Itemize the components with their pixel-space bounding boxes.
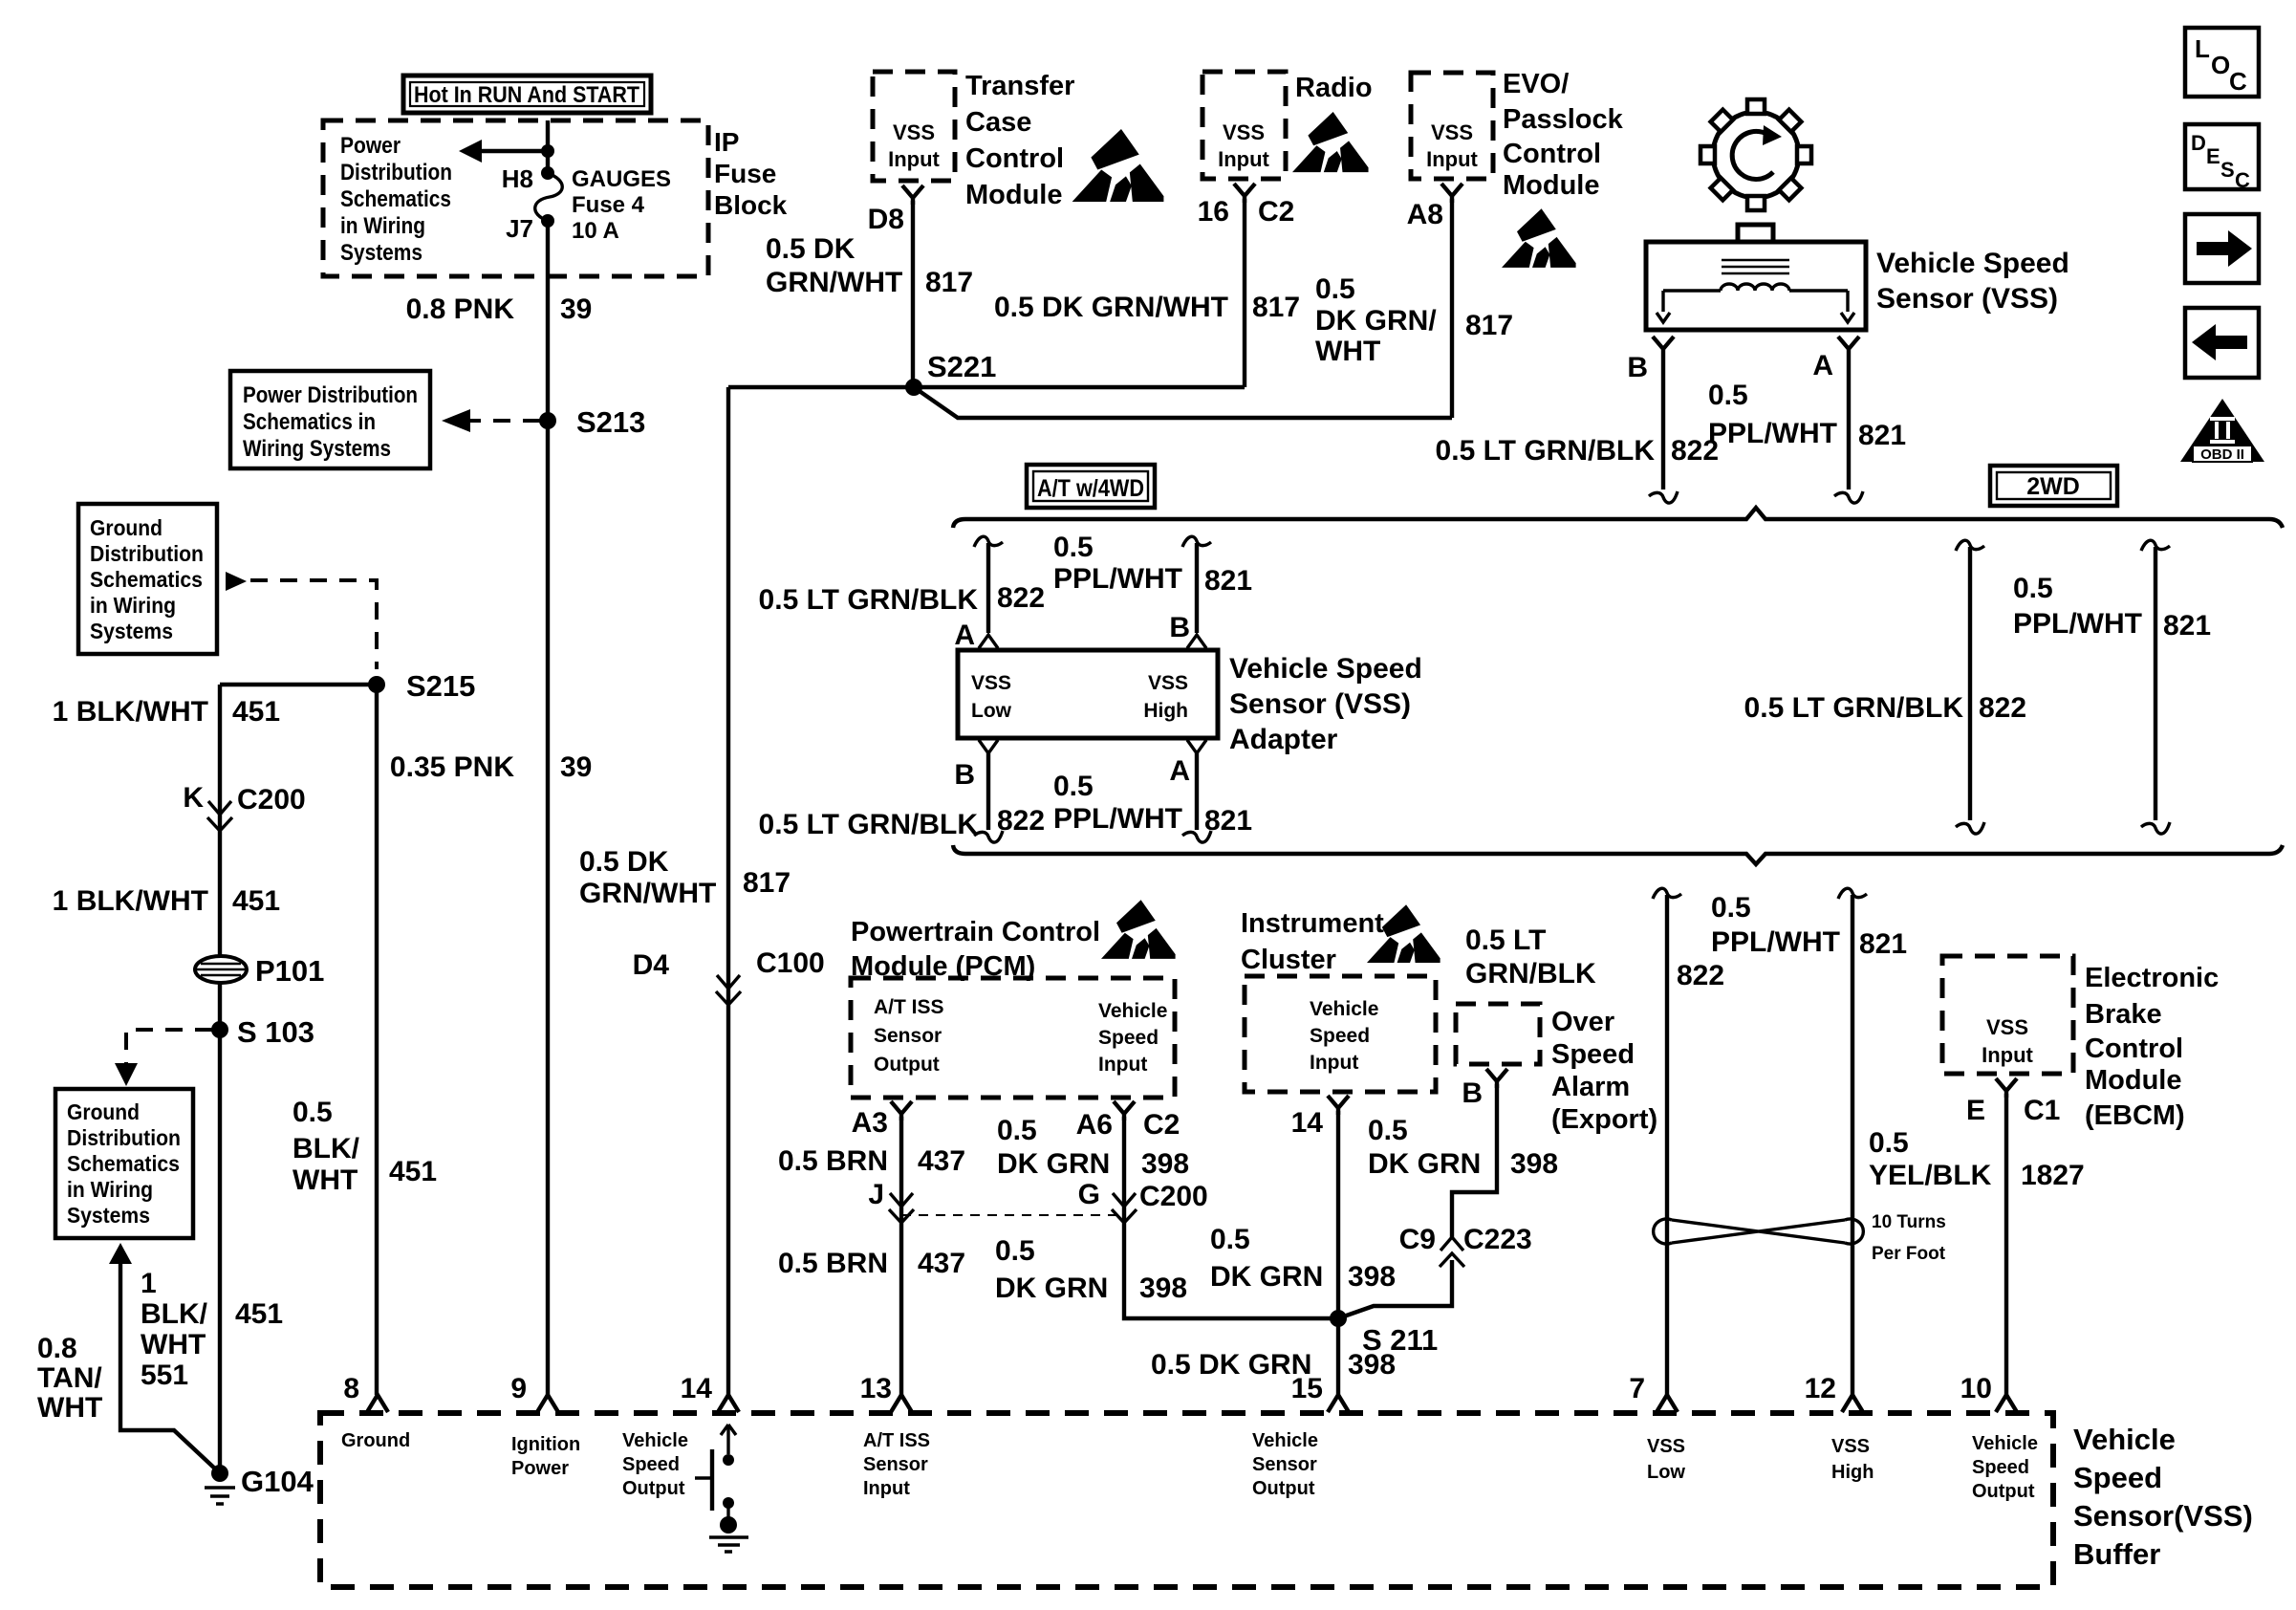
- ground G104: [205, 1465, 314, 1504]
- svg-text:0.5: 0.5: [1053, 532, 1094, 563]
- label 0.5 PPL/WHT 821 adapter upper: [1053, 532, 1252, 597]
- svg-text:in Wiring: in Wiring: [67, 1177, 153, 1202]
- svg-text:S221: S221: [927, 350, 996, 383]
- arrow to power distribution: [459, 140, 554, 163]
- svg-text:Block: Block: [714, 190, 788, 220]
- label 0.8 PNK 39: [406, 294, 593, 325]
- dashed arrow S213 to power distribution: [442, 409, 540, 432]
- svg-text:8: 8: [343, 1373, 359, 1404]
- svg-text:Power Distribution: Power Distribution: [243, 382, 418, 408]
- svg-text:451: 451: [235, 1298, 283, 1330]
- svg-text:Vehicle: Vehicle: [1972, 1433, 2038, 1454]
- svg-text:VSS: VSS: [1831, 1436, 1870, 1457]
- svg-text:Speed: Speed: [622, 1454, 680, 1475]
- svg-text:Electronic: Electronic: [2085, 963, 2219, 993]
- label 0.5 PPL/WHT 821 adapter lower: [1053, 771, 1252, 837]
- wire ignition feed into fuse: [546, 120, 550, 172]
- svg-text:0.5 LT: 0.5 LT: [1465, 925, 1546, 956]
- wire 821 2wd: [2141, 540, 2170, 834]
- wire over speed alarm to S211: [1338, 1084, 1497, 1318]
- svg-text:437: 437: [918, 1145, 965, 1177]
- svg-text:1: 1: [141, 1268, 157, 1299]
- name Radio: [1295, 73, 1373, 103]
- svg-text:H8: H8: [502, 164, 533, 193]
- dashed arrow S103 to ground box lower: [115, 1030, 212, 1086]
- esd symbol evo passlock: [1502, 208, 1576, 268]
- svg-text:Vehicle: Vehicle: [2073, 1423, 2176, 1456]
- esd symbol instrument cluster: [1367, 904, 1440, 963]
- svg-text:Cluster: Cluster: [1241, 945, 1336, 975]
- pin 8 Ground: [341, 1373, 410, 1451]
- svg-text:C9: C9: [1399, 1224, 1436, 1255]
- esd symbol pcm: [1101, 900, 1176, 959]
- svg-text:0.8: 0.8: [37, 1333, 77, 1364]
- svg-text:Input: Input: [1310, 1052, 1358, 1074]
- connector C200 dashed link: [901, 1214, 1124, 1216]
- svg-text:IP: IP: [714, 127, 739, 157]
- label box Hot In RUN And START: [403, 76, 651, 113]
- svg-text:B: B: [954, 759, 975, 791]
- svg-text:Radio: Radio: [1295, 73, 1373, 103]
- wire 821 adapter A down: [1182, 753, 1211, 842]
- svg-text:in Wiring: in Wiring: [90, 593, 176, 618]
- wire VSS low 822 to pin 7: [1653, 888, 1681, 1395]
- label 0.5 DK GRN 398 lower: [995, 1235, 1187, 1304]
- svg-text:Speed: Speed: [1972, 1457, 2029, 1478]
- svg-text:817: 817: [743, 867, 791, 899]
- svg-text:VSS: VSS: [893, 120, 935, 144]
- svg-text:C200: C200: [1139, 1181, 1208, 1212]
- wire LT GRN/BLK 822 from sensor B: [1649, 356, 1678, 503]
- svg-text:DK GRN/: DK GRN/: [1315, 305, 1437, 337]
- label 0.5 DK GRN/WHT 817 left: [766, 233, 973, 298]
- svg-text:PPL/WHT: PPL/WHT: [1708, 418, 1837, 449]
- svg-text:C2: C2: [1143, 1109, 1180, 1141]
- svg-text:10 Turns: 10 Turns: [1872, 1212, 1946, 1232]
- svg-text:0.5 LT GRN/BLK: 0.5 LT GRN/BLK: [759, 584, 979, 616]
- output switch symbol: [695, 1425, 748, 1552]
- svg-text:E: E: [1966, 1095, 1985, 1126]
- label 0.5 BLK/WHT 451: [292, 1097, 437, 1196]
- svg-text:0.5: 0.5: [997, 1115, 1037, 1146]
- wire DK GRN/WHT 817 D8 to S221: [911, 201, 915, 387]
- wire S221 bus: [728, 387, 1452, 418]
- svg-text:A/T ISS: A/T ISS: [863, 1430, 930, 1451]
- name EVO Passlock Control Module: [1503, 69, 1624, 201]
- label 0.5 LT GRN/BLK 822 adapter upper: [759, 582, 1046, 616]
- node S215: [368, 669, 475, 703]
- svg-text:Input: Input: [1218, 147, 1269, 171]
- svg-text:Systems: Systems: [67, 1203, 150, 1228]
- wire 0.35 PNK 39 S213 to pin 9: [546, 421, 550, 1395]
- svg-text:0.5 DK GRN/WHT: 0.5 DK GRN/WHT: [994, 292, 1228, 323]
- svg-text:Ignition: Ignition: [511, 1434, 580, 1455]
- vehicle speed sensor adapter box: [958, 650, 1218, 738]
- module Radio VSS Input: [1202, 72, 1286, 179]
- svg-text:Vehicle Speed: Vehicle Speed: [1229, 653, 1422, 685]
- svg-text:Schematics: Schematics: [67, 1151, 180, 1176]
- svg-text:817: 817: [925, 267, 973, 298]
- svg-text:Speed: Speed: [1551, 1039, 1635, 1070]
- svg-text:O: O: [2211, 51, 2230, 79]
- wire 0.8 TAN/WHT 551 to G104: [120, 1260, 218, 1471]
- svg-text:A: A: [954, 620, 975, 651]
- svg-text:Vehicle Speed: Vehicle Speed: [1876, 248, 2069, 279]
- svg-text:E: E: [2206, 144, 2220, 168]
- svg-text:Vehicle: Vehicle: [1098, 1000, 1167, 1022]
- svg-text:7: 7: [1629, 1373, 1645, 1404]
- svg-text:C223: C223: [1463, 1224, 1532, 1255]
- wire 822 stub to adapter A: [974, 536, 1003, 648]
- svg-text:2WD: 2WD: [2026, 473, 2080, 500]
- pin 9 Ignition Power: [510, 1373, 580, 1479]
- svg-text:Vehicle: Vehicle: [622, 1430, 688, 1451]
- svg-text:Input: Input: [1426, 147, 1478, 171]
- wire 0.8 PNK 39 fuse to S213: [546, 221, 550, 421]
- svg-text:Speed: Speed: [1098, 1027, 1159, 1049]
- svg-text:0.5: 0.5: [995, 1235, 1035, 1267]
- svg-text:0.5: 0.5: [292, 1097, 333, 1128]
- reluctor gear wheel: [1700, 99, 1811, 210]
- svg-text:A/T ISS: A/T ISS: [874, 996, 944, 1018]
- dashed arrow ground box to S215: [226, 572, 377, 669]
- node S213: [539, 405, 645, 439]
- svg-text:DK GRN: DK GRN: [1368, 1148, 1481, 1180]
- svg-text:Distribution: Distribution: [67, 1125, 181, 1150]
- svg-text:Schematics in: Schematics in: [243, 409, 376, 435]
- pin A6 C2: [1076, 1101, 1180, 1141]
- icon LOC: [2185, 28, 2259, 97]
- svg-text:OBD II: OBD II: [2200, 446, 2244, 463]
- svg-text:GRN/BLK: GRN/BLK: [1465, 958, 1596, 990]
- fuse F4 GAUGES 10A: [502, 164, 671, 244]
- label 0.5 YEL/BLK 1827: [1869, 1127, 2085, 1191]
- wire 0.5 BRN 437 A3 down: [899, 1117, 903, 1395]
- label 0.5 PPL/WHT 821 buffer: [1711, 892, 1907, 960]
- svg-text:398: 398: [1141, 1148, 1189, 1180]
- wire 1 BLK/WHT 451 down to G104: [218, 685, 222, 1469]
- label 0.5 DK GRN 398 bottom: [1151, 1349, 1396, 1381]
- svg-text:WHT: WHT: [141, 1329, 206, 1360]
- name Powertrain Control Module PCM: [851, 917, 1100, 982]
- label box A/T w 4WD: [1027, 465, 1155, 508]
- svg-text:VSS: VSS: [1647, 1436, 1685, 1457]
- svg-text:C1: C1: [2024, 1095, 2060, 1126]
- svg-text:Wiring Systems: Wiring Systems: [243, 436, 391, 462]
- wire radio vss input: [1243, 199, 1246, 387]
- pin B sensor: [1627, 337, 1674, 383]
- svg-text:Output: Output: [622, 1478, 685, 1499]
- svg-text:S 103: S 103: [237, 1015, 314, 1049]
- svg-text:Adapter: Adapter: [1229, 724, 1338, 755]
- connector C9 C223: [1399, 1224, 1532, 1267]
- pin E C1: [1966, 1078, 2060, 1126]
- pin 12 VSS High: [1805, 1373, 1874, 1483]
- svg-text:WHT: WHT: [37, 1392, 102, 1424]
- pin B adapter top: [1169, 612, 1190, 643]
- svg-text:Transfer: Transfer: [965, 71, 1074, 101]
- twisted pair symbol: [1654, 1219, 1864, 1244]
- svg-text:822: 822: [1671, 435, 1719, 467]
- svg-text:Power: Power: [340, 133, 401, 159]
- module EBCM VSS Input dashed box: [1942, 956, 2073, 1074]
- svg-text:821: 821: [1858, 420, 1906, 451]
- svg-text:A: A: [1169, 755, 1190, 787]
- svg-text:398: 398: [1139, 1273, 1187, 1304]
- connector K C200: [183, 782, 305, 831]
- svg-text:0.5: 0.5: [1315, 273, 1355, 305]
- svg-text:Control: Control: [1503, 139, 1601, 169]
- pin A8: [1407, 184, 1462, 230]
- svg-text:822: 822: [997, 805, 1045, 837]
- icon arrow right: [2185, 214, 2259, 283]
- svg-text:PPL/WHT: PPL/WHT: [1053, 563, 1182, 595]
- svg-text:VSS: VSS: [1223, 120, 1265, 144]
- svg-text:14: 14: [681, 1373, 713, 1404]
- svg-text:WHT: WHT: [1315, 336, 1380, 367]
- svg-text:PPL/WHT: PPL/WHT: [2013, 608, 2142, 640]
- svg-text:0.8 PNK: 0.8 PNK: [406, 294, 515, 325]
- wire 817 corner down to pin 14: [726, 387, 730, 1395]
- svg-text:DK GRN: DK GRN: [995, 1273, 1108, 1304]
- IP fuse block name: [714, 127, 788, 220]
- svg-text:Sensor(VSS): Sensor(VSS): [2073, 1499, 2253, 1533]
- svg-text:Input: Input: [1098, 1054, 1147, 1076]
- svg-text:Sensor: Sensor: [863, 1454, 928, 1475]
- svg-text:551: 551: [141, 1360, 188, 1391]
- svg-text:S213: S213: [576, 405, 645, 439]
- svg-text:D: D: [2191, 131, 2206, 155]
- svg-text:Ground: Ground: [341, 1430, 410, 1451]
- svg-text:Sensor: Sensor: [874, 1025, 942, 1047]
- svg-text:10 A: 10 A: [572, 218, 619, 244]
- svg-text:821: 821: [1859, 928, 1907, 960]
- svg-text:C: C: [2229, 67, 2247, 96]
- label 0.5 LT GRN/BLK 822 sensor: [1436, 435, 1720, 467]
- svg-text:Ground: Ground: [67, 1099, 140, 1124]
- box Ground Distribution Schematics in Wiring Systems lower: [55, 1089, 193, 1238]
- svg-text:EVO/: EVO/: [1503, 69, 1569, 99]
- arrow into ground box lower: [109, 1243, 132, 1264]
- svg-text:S: S: [2220, 158, 2235, 182]
- module Over Speed Alarm dashed box: [1456, 1004, 1540, 1064]
- label 0.5 PPL/WHT 821 2wd: [2013, 573, 2211, 642]
- vehicle speed sensor VSS body: [1646, 225, 1866, 330]
- svg-text:Input: Input: [863, 1478, 910, 1499]
- svg-text:Low: Low: [1647, 1462, 1685, 1483]
- label box 2WD: [1990, 466, 2117, 506]
- svg-text:Low: Low: [971, 700, 1012, 722]
- box Power Distribution Schematics in Wiring Systems: [230, 371, 430, 468]
- connector J C200: [868, 1179, 914, 1223]
- svg-text:Control: Control: [2085, 1033, 2183, 1064]
- label 0.5 PPL/WHT 821 sensor: [1708, 380, 1906, 451]
- node S103: [211, 1015, 314, 1049]
- svg-text:821: 821: [1204, 805, 1252, 837]
- svg-text:821: 821: [1204, 565, 1252, 597]
- label 10 Turns Per Foot: [1872, 1212, 1946, 1264]
- pin A adapter top: [954, 620, 975, 651]
- svg-text:821: 821: [2163, 610, 2211, 642]
- wire evo vss input: [1450, 199, 1454, 418]
- label 0.5 DK GRN 398 center: [1210, 1224, 1396, 1293]
- icon DESC: [2185, 124, 2259, 192]
- name Vehicle Speed Sensor VSS Adapter: [1229, 653, 1422, 755]
- label 451 at ground wire: [235, 1298, 283, 1330]
- svg-text:Input: Input: [1982, 1043, 2033, 1067]
- svg-text:0.5 LT GRN/BLK: 0.5 LT GRN/BLK: [1436, 435, 1656, 467]
- svg-text:BLK/: BLK/: [292, 1133, 360, 1164]
- svg-text:J7: J7: [506, 214, 533, 243]
- svg-text:0.5: 0.5: [1711, 892, 1751, 924]
- svg-text:0.5 DK GRN: 0.5 DK GRN: [1151, 1349, 1311, 1381]
- svg-text:GAUGES: GAUGES: [572, 166, 671, 192]
- name Transfer Case Control Module: [965, 71, 1074, 210]
- svg-text:DK GRN: DK GRN: [997, 1148, 1110, 1180]
- wire VSS high 821 to pin 12: [1838, 888, 1867, 1395]
- svg-text:Powertrain Control: Powertrain Control: [851, 917, 1100, 947]
- svg-text:D4: D4: [633, 949, 670, 981]
- node S211: [1330, 1310, 1438, 1357]
- svg-text:Power: Power: [511, 1458, 569, 1479]
- connector D4 C100: [633, 947, 825, 1005]
- svg-text:13: 13: [860, 1373, 892, 1404]
- label 0.5 DK GRN 398 upper: [997, 1115, 1189, 1180]
- svg-text:Alarm: Alarm: [1551, 1072, 1630, 1102]
- svg-text:L: L: [2195, 34, 2210, 63]
- svg-text:Input: Input: [888, 147, 940, 171]
- module PCM dashed box: [851, 978, 1175, 1098]
- svg-text:0.5 LT GRN/BLK: 0.5 LT GRN/BLK: [1744, 692, 1964, 724]
- IP fuse block dashed box: [323, 120, 708, 276]
- svg-text:Output: Output: [874, 1054, 940, 1076]
- svg-text:451: 451: [232, 885, 280, 917]
- svg-text:Per Foot: Per Foot: [1872, 1244, 1946, 1264]
- svg-text:39: 39: [560, 294, 592, 325]
- svg-text:C: C: [2235, 168, 2250, 192]
- box Ground Distribution Schematics in Wiring Systems upper: [78, 504, 217, 654]
- svg-text:Speed: Speed: [2073, 1461, 2162, 1494]
- pin 10 Vehicle Speed Output right: [1960, 1373, 2038, 1502]
- svg-text:Output: Output: [1252, 1478, 1315, 1499]
- svg-text:C2: C2: [1258, 196, 1294, 228]
- svg-text:C200: C200: [237, 784, 306, 816]
- svg-text:K: K: [183, 782, 204, 814]
- name Electronic Brake Control Module EBCM: [2085, 963, 2219, 1131]
- svg-text:12: 12: [1805, 1373, 1836, 1404]
- svg-text:0.35 PNK: 0.35 PNK: [390, 751, 514, 783]
- svg-text:Sensor (VSS): Sensor (VSS): [1229, 688, 1411, 720]
- svg-text:0.5: 0.5: [1869, 1127, 1909, 1159]
- svg-text:Vehicle: Vehicle: [1310, 998, 1378, 1020]
- label 1 BLK/WHT 451 lower: [53, 885, 280, 917]
- name Vehicle Speed Sensor VSS Buffer: [2073, 1423, 2253, 1571]
- svg-text:Module: Module: [2085, 1065, 2182, 1096]
- wire 821 stub to adapter B: [1182, 536, 1211, 648]
- svg-text:0.5 LT GRN/BLK: 0.5 LT GRN/BLK: [759, 809, 979, 840]
- svg-text:398: 398: [1348, 1261, 1396, 1293]
- svg-text:822: 822: [1677, 960, 1724, 991]
- svg-text:Ground: Ground: [90, 515, 162, 540]
- svg-text:P101: P101: [255, 954, 324, 988]
- svg-text:PPL/WHT: PPL/WHT: [1053, 803, 1182, 835]
- svg-text:A6: A6: [1076, 1109, 1113, 1141]
- pin A sensor: [1812, 337, 1859, 381]
- svg-text:(EBCM): (EBCM): [2085, 1100, 2185, 1131]
- pin B adapter bottom: [954, 740, 998, 791]
- brace upper split: [953, 508, 2283, 528]
- pin 13 AT ISS Sensor Input: [860, 1373, 930, 1499]
- pin B over speed alarm: [1462, 1069, 1507, 1109]
- svg-text:A8: A8: [1407, 199, 1443, 230]
- svg-text:High: High: [1143, 700, 1188, 722]
- label 0.5 DK GRN/WHT 817 at D4: [579, 846, 791, 909]
- esd symbol transfer case: [1072, 129, 1164, 202]
- svg-text:14: 14: [1291, 1107, 1324, 1139]
- node S221: [905, 350, 996, 396]
- svg-text:GRN/WHT: GRN/WHT: [766, 267, 902, 298]
- label 1 BLK/WHT 551: [141, 1268, 208, 1391]
- svg-text:Control: Control: [965, 143, 1064, 174]
- svg-text:0.5 BRN: 0.5 BRN: [778, 1145, 888, 1177]
- connector G C200: [1078, 1179, 1208, 1223]
- svg-text:0.5: 0.5: [1053, 771, 1094, 802]
- svg-text:Module: Module: [1503, 170, 1600, 201]
- label 0.5 BRN 437 lower: [778, 1248, 965, 1279]
- svg-text:Fuse: Fuse: [714, 159, 776, 188]
- module EVO Passlock Control Module VSS Input: [1411, 73, 1493, 179]
- svg-text:0.5 DK: 0.5 DK: [766, 233, 856, 265]
- svg-text:BLK/: BLK/: [141, 1298, 208, 1330]
- svg-text:WHT: WHT: [292, 1164, 357, 1196]
- svg-text:451: 451: [389, 1156, 437, 1187]
- wire S215 to left corner: [220, 683, 377, 686]
- svg-text:Brake: Brake: [2085, 999, 2162, 1030]
- svg-text:Hot In RUN And START: Hot In RUN And START: [414, 82, 639, 108]
- svg-text:VSS: VSS: [1148, 672, 1188, 694]
- label 0.5 DK GRN 398 cluster right: [1368, 1115, 1558, 1180]
- svg-text:(Export): (Export): [1551, 1104, 1657, 1135]
- svg-text:15: 15: [1291, 1373, 1323, 1404]
- svg-text:822: 822: [997, 582, 1045, 614]
- svg-text:398: 398: [1348, 1349, 1396, 1381]
- svg-text:D8: D8: [868, 204, 904, 235]
- svg-text:0.5: 0.5: [1708, 380, 1748, 411]
- svg-text:in Wiring: in Wiring: [340, 213, 425, 239]
- name Vehicle Speed Sensor VSS: [1876, 248, 2069, 315]
- svg-text:A/T w/4WD: A/T w/4WD: [1037, 475, 1144, 502]
- svg-text:C100: C100: [756, 947, 825, 979]
- svg-text:Module: Module: [965, 180, 1063, 210]
- svg-text:817: 817: [1252, 292, 1300, 323]
- svg-text:0.5: 0.5: [1210, 1224, 1250, 1255]
- svg-text:J: J: [868, 1179, 884, 1210]
- pin 14 cluster: [1291, 1096, 1349, 1139]
- pin D8: [868, 185, 923, 235]
- svg-text:Systems: Systems: [90, 619, 173, 643]
- svg-text:Module (PCM): Module (PCM): [851, 951, 1035, 982]
- svg-text:0.5 DK: 0.5 DK: [579, 846, 669, 878]
- icon OBD II triangle: [2180, 399, 2264, 463]
- pin A adapter bottom: [1169, 740, 1206, 787]
- svg-text:VSS: VSS: [1431, 120, 1473, 144]
- wire 0.5 DK GRN 398 A6 to S211: [1124, 1117, 1338, 1318]
- svg-text:PPL/WHT: PPL/WHT: [1711, 926, 1840, 958]
- svg-text:Fuse 4: Fuse 4: [572, 192, 645, 218]
- module Transfer Case Control Module VSS Input: [873, 72, 955, 181]
- svg-text:Speed: Speed: [1310, 1025, 1370, 1047]
- grommet P101: [195, 954, 324, 988]
